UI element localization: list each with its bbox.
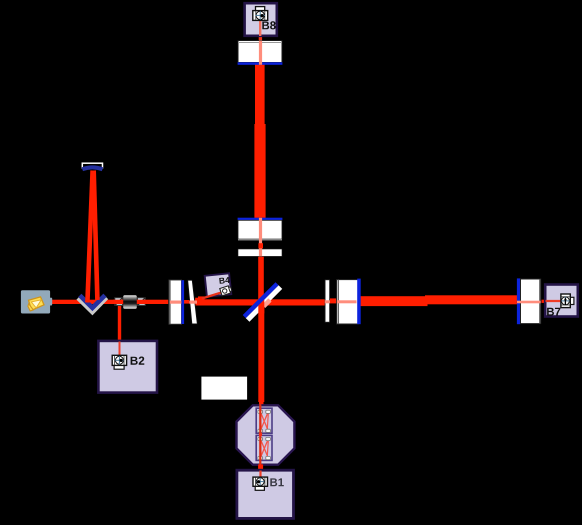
salmon beam through MU1 bbox=[259, 41, 262, 65]
detector icon B4 bbox=[220, 285, 233, 296]
salmon beam through tilted plate bbox=[189, 301, 197, 304]
detector icon B8 bbox=[253, 7, 268, 21]
pickoff wedge step 1 for B4 bbox=[195, 298, 198, 300]
central beamsplitter substrate bbox=[246, 285, 282, 321]
beam waist dot in north telescope bbox=[258, 243, 263, 248]
beam: through Faraday isolator cubes bbox=[113, 300, 146, 304]
detector B2 box bbox=[98, 341, 157, 393]
label B7 bbox=[547, 308, 560, 316]
beam to detector B4 bbox=[202, 292, 222, 298]
beam: segment between east lens and east input mirror bbox=[330, 298, 339, 303]
salmon beam through mode matching mirror bbox=[170, 301, 181, 304]
mirror MU2 stack (north telescope) bbox=[238, 218, 283, 257]
beam: east arm thick beam part 1 bbox=[361, 296, 428, 306]
salmon beam through east lens bbox=[325, 300, 330, 303]
east lens (thin) bbox=[325, 280, 330, 322]
beam dot inside octagon middle bbox=[259, 433, 262, 436]
beam inside B8 to icon bbox=[259, 20, 261, 36]
detector B7 box bbox=[545, 285, 578, 317]
salmon beam through east input mirror bbox=[337, 300, 357, 303]
octagon (output mode cleaner) bbox=[237, 405, 295, 464]
detector B8 box bbox=[245, 3, 277, 36]
beam: pickoff down to detector B2 bbox=[118, 305, 121, 341]
east end mirror bbox=[517, 278, 541, 324]
beam inside B2 to icon bbox=[119, 342, 121, 357]
label B2 bbox=[131, 357, 145, 365]
beam: north inner beam MU2 to beamsplitter bbox=[258, 256, 264, 303]
east input mirror bbox=[337, 279, 361, 325]
curved mirror MMC (top left) bbox=[82, 163, 102, 169]
beam: stub into octagon bbox=[259, 401, 264, 406]
mirror MU1 (top, below B8) bbox=[238, 41, 283, 65]
mode matching mirror (blue coated, before beamsplitter) bbox=[169, 280, 184, 324]
salmon beam through east end mirror bbox=[517, 301, 541, 304]
beam: curved mirror MMC down to V-mirror bbox=[94, 171, 98, 301]
Faraday isolator cylinder bbox=[123, 295, 137, 309]
laser source bbox=[21, 290, 52, 313]
white label placeholder rectangle bbox=[201, 377, 247, 400]
Faraday isolator right cube bbox=[138, 298, 146, 306]
beam: south beam beamsplitter to octagon bbox=[258, 302, 264, 402]
pickoff wedge step 2 for B4 bbox=[198, 296, 205, 300]
salmon beam through MU2 stack bbox=[259, 218, 262, 256]
detector icon B1 bbox=[253, 477, 268, 490]
Faraday isolator left cube bbox=[115, 298, 123, 306]
suspension element bottom in octagon bbox=[256, 435, 272, 460]
tilted compensation plate bbox=[188, 280, 198, 324]
beam: V-mirror up to curved mirror MMC bbox=[87, 171, 92, 303]
beam dot at octagon output bbox=[258, 464, 263, 469]
beam inside B1 to icon bbox=[259, 471, 261, 479]
beam inside B7 to icon bbox=[546, 300, 563, 302]
detector B4 box (rotated) bbox=[205, 273, 232, 296]
detector B1 box bbox=[237, 470, 294, 518]
beam: north outer thick beam lower part bbox=[254, 124, 265, 218]
beam: north outer thick beam upper part bbox=[255, 64, 265, 126]
label B8 bbox=[262, 21, 275, 29]
V steering mirror pair bbox=[78, 295, 106, 312]
beam: west beam laser to mode matching mirror bbox=[51, 300, 169, 304]
detector icon B7 bbox=[561, 294, 574, 308]
label B1 bbox=[270, 478, 284, 486]
salmon patch at beamsplitter crossing bbox=[262, 298, 272, 308]
central beamsplitter coating (blue) bbox=[243, 282, 279, 318]
detector icon B2 bbox=[112, 355, 126, 369]
beam dot between end mirror and B7 bbox=[542, 300, 545, 303]
suspension element top in octagon bbox=[256, 408, 272, 433]
beam: B8 stub between detector and mirror MU1 bbox=[259, 36, 262, 41]
beam: segment between mirror coating and tilted plate bbox=[184, 300, 190, 304]
beam: central beam to east input optics bbox=[194, 299, 327, 305]
beam: east arm thick beam part 2 bbox=[425, 295, 519, 304]
beam through octagon bbox=[259, 404, 261, 471]
beam: vertical beam over beamsplitter substrate bbox=[258, 299, 264, 313]
